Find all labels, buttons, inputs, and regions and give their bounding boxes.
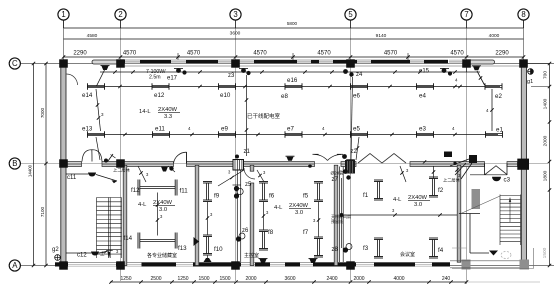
distribution box z1 bbox=[233, 160, 244, 171]
svg-text:1500: 1500 bbox=[198, 276, 209, 282]
svg-text:1400: 1400 bbox=[543, 98, 549, 109]
lamp f7 bbox=[314, 237, 323, 257]
wall interior entrance stub bbox=[459, 214, 480, 254]
svg-text:2290: 2290 bbox=[495, 51, 509, 57]
riser shaft at z1 bbox=[237, 170, 240, 262]
folding door meeting room bbox=[358, 154, 406, 164]
lamp e10 bbox=[219, 83, 236, 90]
wall right exterior bbox=[521, 64, 526, 263]
column A2 bbox=[116, 261, 125, 269]
lamp corridor wall bbox=[286, 156, 295, 161]
grid stem 1 bbox=[63, 20, 65, 28]
svg-text:2000: 2000 bbox=[543, 135, 549, 146]
grid bubble 8 bbox=[518, 9, 529, 20]
label e4 bbox=[419, 93, 426, 100]
label f10 bbox=[214, 246, 223, 253]
svg-text:4570: 4570 bbox=[384, 51, 398, 57]
label e2 bbox=[495, 93, 502, 100]
svg-text:c11: c11 bbox=[67, 175, 77, 181]
svg-text:4000: 4000 bbox=[489, 33, 500, 39]
lamp e5 bbox=[351, 131, 368, 138]
svg-text:2.5m: 2.5m bbox=[149, 75, 161, 81]
lamp z5 pair bbox=[233, 185, 244, 199]
staircase entrance hall bbox=[461, 195, 521, 246]
svg-text:f8: f8 bbox=[268, 229, 274, 236]
svg-text:z2: z2 bbox=[351, 149, 358, 155]
svg-text:1800: 1800 bbox=[543, 170, 549, 181]
dimension line top overall bbox=[64, 21, 524, 28]
column A8 porch bbox=[520, 260, 530, 270]
dimension line left bays bbox=[40, 62, 48, 267]
svg-text:3.0: 3.0 bbox=[295, 210, 303, 216]
svg-text:2: 2 bbox=[118, 10, 122, 19]
junction dot door f9 upper bbox=[308, 164, 312, 168]
column A5 bbox=[346, 261, 355, 269]
svg-text:e2: e2 bbox=[495, 93, 502, 100]
label z3 bbox=[228, 73, 235, 79]
label f5 bbox=[303, 193, 309, 200]
grid line 2 vertical bbox=[120, 20, 122, 281]
svg-text:上二层休: 上二层休 bbox=[443, 177, 461, 184]
wire entrance cluster bbox=[423, 159, 472, 179]
label fan note bbox=[331, 213, 351, 224]
svg-text:z6: z6 bbox=[242, 228, 249, 234]
wire f5-f7 bbox=[313, 202, 320, 237]
svg-text:4-L: 4-L bbox=[138, 202, 147, 208]
label g1 bbox=[527, 79, 533, 85]
svg-text:3: 3 bbox=[233, 10, 237, 19]
svg-text:700: 700 bbox=[543, 71, 549, 79]
svg-text:2290: 2290 bbox=[73, 51, 87, 57]
grid line C horizontal bbox=[21, 63, 555, 65]
svg-text:已干线配电室: 已干线配电室 bbox=[247, 112, 281, 120]
symbol g2 bbox=[52, 247, 60, 260]
grid line 1 vertical bbox=[63, 20, 65, 63]
svg-text:e7: e7 bbox=[287, 126, 294, 133]
lamp e12 bbox=[152, 83, 169, 90]
grid bubble 2 bbox=[115, 9, 126, 20]
grid line 3 vertical bbox=[235, 20, 237, 281]
grid bubble 7 bbox=[461, 9, 472, 20]
wall interior B right stub bbox=[507, 162, 518, 167]
svg-text:e15: e15 bbox=[419, 69, 430, 75]
svg-text:f10: f10 bbox=[214, 246, 223, 253]
grid line 8 vertical bbox=[523, 20, 525, 63]
wire f6-f8 bbox=[262, 202, 269, 230]
svg-text:f3: f3 bbox=[363, 245, 369, 252]
grid line B horizontal bbox=[21, 163, 549, 165]
svg-text:5800: 5800 bbox=[287, 21, 298, 26]
label z4 bbox=[356, 72, 363, 78]
grid bubble A bbox=[9, 260, 20, 271]
svg-text:4570: 4570 bbox=[317, 51, 331, 57]
svg-text:3.0: 3.0 bbox=[414, 202, 422, 208]
svg-text:e14: e14 bbox=[82, 92, 93, 99]
svg-text:e16: e16 bbox=[287, 77, 298, 84]
label circuit 4-L room3 bbox=[393, 195, 430, 208]
wire c11 bbox=[66, 174, 117, 183]
label e10 bbox=[220, 92, 231, 99]
staircase left bbox=[97, 198, 122, 259]
lamp f2 bbox=[429, 177, 438, 197]
label upper landing bbox=[113, 167, 131, 174]
lamp z8 bbox=[343, 244, 352, 253]
svg-text:上二层休: 上二层休 bbox=[113, 167, 131, 174]
label e8 bbox=[281, 93, 288, 100]
wall interior f5-f1 divider bbox=[334, 165, 338, 265]
lamp wall bottom 1 bbox=[259, 259, 268, 264]
label f14 bbox=[124, 235, 133, 242]
svg-text:各专业储藏室: 各专业储藏室 bbox=[147, 252, 177, 259]
svg-text:f11: f11 bbox=[180, 188, 189, 195]
lamp cluster f11 door bbox=[161, 166, 175, 172]
svg-text:3600: 3600 bbox=[284, 276, 295, 282]
lamp e9 bbox=[219, 131, 236, 138]
svg-text:7000: 7000 bbox=[40, 107, 45, 118]
label e16 bbox=[287, 77, 298, 84]
svg-text:e8: e8 bbox=[281, 93, 288, 100]
lamp f-room1 ceiling bbox=[104, 154, 116, 163]
lamp z3 pair bbox=[239, 68, 251, 75]
label main control room bbox=[244, 252, 259, 259]
wire lamp row 1 bbox=[87, 85, 500, 88]
svg-text:e17: e17 bbox=[167, 76, 178, 82]
lamp f1 bbox=[374, 180, 383, 200]
column B5 bbox=[346, 159, 355, 167]
svg-text:e10: e10 bbox=[220, 92, 231, 99]
lamp e1 bbox=[486, 131, 503, 138]
svg-text:f14: f14 bbox=[124, 235, 133, 242]
svg-text:c3: c3 bbox=[504, 177, 511, 184]
entrance double door bbox=[470, 164, 507, 176]
grid stem 8 bbox=[523, 20, 525, 28]
svg-text:1250: 1250 bbox=[120, 276, 131, 282]
svg-text:c12: c12 bbox=[77, 253, 87, 259]
wire f-room1 vertical bbox=[156, 193, 163, 236]
label z6 bbox=[242, 228, 249, 234]
svg-text:z5: z5 bbox=[245, 182, 252, 188]
svg-text:4000: 4000 bbox=[393, 276, 404, 282]
label B20 bbox=[331, 170, 345, 177]
svg-text:e13: e13 bbox=[82, 126, 93, 133]
svg-text:4580: 4580 bbox=[87, 33, 98, 39]
svg-text:4570: 4570 bbox=[450, 51, 464, 57]
wall interior f9-f6 divider bbox=[250, 165, 254, 265]
label e14 bbox=[82, 92, 93, 99]
lamp e11 bbox=[153, 131, 170, 138]
distribution panel entrance bbox=[469, 155, 477, 163]
column C7 bbox=[462, 59, 471, 67]
wire meeting room horiz bbox=[340, 208, 458, 217]
door arc room f9 inner bbox=[244, 168, 255, 179]
lamp canopy right bbox=[472, 66, 481, 71]
label c11 bbox=[67, 175, 77, 181]
lamp e17 pair bbox=[174, 68, 187, 75]
lamp f4 bbox=[429, 238, 438, 258]
riser shaft at z7 bbox=[340, 167, 344, 263]
column A1 bbox=[59, 261, 68, 269]
dimension line bottom bbox=[109, 276, 540, 284]
label f6 bbox=[269, 193, 275, 200]
label f12 bbox=[131, 187, 140, 194]
svg-text:7100: 7100 bbox=[40, 206, 45, 217]
dimension line left overall bbox=[28, 62, 36, 267]
wall interior f11-f9 divider bbox=[195, 165, 199, 265]
label e11 bbox=[155, 126, 165, 133]
wire canopy lamp drop bbox=[97, 70, 105, 86]
svg-text:3600: 3600 bbox=[230, 31, 241, 37]
svg-text:3.3: 3.3 bbox=[164, 114, 172, 120]
label z2 bbox=[342, 149, 357, 159]
label c3 bbox=[504, 177, 511, 184]
wire porch run bbox=[470, 251, 498, 256]
wire f1 switch bbox=[400, 166, 409, 182]
column C1 bbox=[59, 59, 68, 67]
door double stair room bbox=[82, 150, 102, 162]
svg-text:4-L: 4-L bbox=[393, 197, 402, 203]
label meeting room bbox=[400, 251, 415, 258]
lamp z6 bbox=[236, 233, 245, 242]
wire lamp row 2 bbox=[87, 126, 498, 136]
column C8 bbox=[519, 59, 528, 67]
svg-text:主控室: 主控室 bbox=[244, 252, 259, 259]
svg-text:8: 8 bbox=[521, 10, 525, 19]
svg-text:2000: 2000 bbox=[245, 276, 256, 282]
porch slab lines bbox=[450, 261, 520, 268]
svg-text:14400: 14400 bbox=[28, 164, 33, 177]
symbol g1 bbox=[528, 69, 534, 75]
svg-text:f9: f9 bbox=[214, 193, 220, 200]
label e17 bbox=[167, 76, 178, 82]
grid line 7 vertical bbox=[466, 20, 468, 284]
lamp e3 bbox=[417, 131, 434, 138]
svg-text:e9: e9 bbox=[221, 126, 228, 133]
svg-text:Ø20管: Ø20管 bbox=[331, 170, 345, 177]
exhaust marker on divider wall bbox=[194, 237, 200, 246]
label z1 bbox=[235, 149, 251, 159]
column A7 porch bbox=[462, 260, 471, 270]
lamp c12 bbox=[91, 252, 99, 256]
wire e15 drop bbox=[453, 71, 484, 88]
label f2 bbox=[438, 187, 444, 194]
lamp c3 bbox=[492, 177, 501, 182]
svg-text:2500: 2500 bbox=[150, 276, 161, 282]
column C3 bbox=[231, 59, 240, 67]
wire row2 to wall drops bbox=[96, 137, 359, 160]
grid bubble 5 bbox=[345, 9, 356, 20]
label f13 bbox=[178, 245, 187, 252]
porch outline bottom-right bbox=[452, 248, 534, 269]
lamp f10 bbox=[203, 235, 212, 255]
canopy top-right bbox=[468, 60, 495, 64]
wire f6 switch bbox=[257, 170, 266, 181]
svg-text:7: 7 bbox=[464, 10, 468, 19]
label f11 bbox=[180, 188, 189, 195]
label e15 bbox=[419, 69, 430, 75]
label f8 bbox=[268, 229, 274, 236]
svg-text:e4: e4 bbox=[419, 93, 426, 100]
lamp f9 bbox=[203, 182, 212, 202]
wire row1 drop left bbox=[96, 89, 104, 131]
grid line 5 vertical bbox=[350, 20, 352, 281]
lamp canopy left bbox=[101, 66, 110, 71]
distribution box z2 bbox=[345, 160, 355, 174]
wire z7-z8 vertical bbox=[341, 178, 343, 248]
label 7-100W bbox=[146, 69, 166, 81]
svg-text:B: B bbox=[12, 159, 17, 168]
svg-text:4-L: 4-L bbox=[274, 205, 283, 211]
wall interior meeting room right bbox=[457, 165, 461, 262]
svg-text:1500: 1500 bbox=[219, 276, 230, 282]
lamp f8 bbox=[259, 230, 268, 250]
lamp e7 bbox=[285, 131, 302, 138]
wall interior corridor B bbox=[66, 162, 485, 167]
lamp e6 bbox=[351, 83, 368, 90]
lamp e14 bbox=[88, 83, 105, 90]
svg-text:f13: f13 bbox=[178, 245, 187, 252]
dimension line top second bbox=[64, 31, 524, 40]
label e3 bbox=[419, 126, 426, 133]
svg-text:4570: 4570 bbox=[123, 51, 137, 57]
svg-text:f7: f7 bbox=[303, 229, 309, 236]
wire c12 bbox=[66, 249, 119, 254]
svg-text:240: 240 bbox=[442, 276, 451, 282]
svg-text:1: 1 bbox=[61, 10, 65, 19]
lamp e16 bbox=[285, 83, 302, 90]
label e9 bbox=[221, 126, 228, 133]
svg-text:f1: f1 bbox=[363, 192, 369, 199]
svg-text:z1: z1 bbox=[244, 149, 251, 155]
wire f10 bottom bbox=[204, 256, 212, 263]
svg-text:z8: z8 bbox=[332, 247, 339, 253]
label e1 bbox=[496, 127, 503, 134]
svg-text:会议室: 会议室 bbox=[400, 251, 415, 258]
grid line A horizontal bbox=[21, 265, 555, 267]
lamp z7 bbox=[343, 169, 351, 180]
wall top thin inner line bbox=[121, 65, 524, 67]
label f4 bbox=[438, 247, 444, 254]
door arc room f11 bbox=[174, 152, 187, 164]
svg-text:2000: 2000 bbox=[353, 276, 364, 282]
column B1 bbox=[59, 159, 68, 167]
svg-text:e3: e3 bbox=[419, 126, 426, 133]
lamp f13-f14 bbox=[138, 233, 177, 249]
label f1 bbox=[363, 192, 369, 199]
lamp f3 bbox=[374, 238, 383, 258]
column A3 bbox=[231, 261, 240, 269]
svg-text:z7: z7 bbox=[332, 177, 339, 183]
shaft gray block entrance bbox=[472, 189, 481, 209]
lamp e4 bbox=[417, 83, 434, 90]
wire top right corner bbox=[466, 66, 468, 72]
grid stem 3 bbox=[235, 20, 237, 28]
door arc big room left bbox=[67, 74, 78, 85]
lamp f5 bbox=[314, 182, 323, 202]
label e6 bbox=[353, 93, 360, 100]
wire ceiling run top bbox=[100, 70, 480, 73]
column B2 bbox=[116, 159, 125, 167]
lamp wall bottom 2 bbox=[309, 259, 318, 264]
lamp e13 bbox=[88, 131, 105, 138]
label f7 bbox=[303, 229, 309, 236]
dimension line top bays bbox=[62, 51, 525, 61]
svg-text:1250: 1250 bbox=[177, 276, 188, 282]
svg-text:2400: 2400 bbox=[326, 276, 337, 282]
wire z4 drop to z2 bbox=[351, 77, 353, 160]
svg-text:4570: 4570 bbox=[187, 51, 201, 57]
svg-text:e5: e5 bbox=[353, 126, 360, 133]
svg-text:z4: z4 bbox=[356, 72, 363, 78]
canopy top-left bbox=[92, 60, 121, 64]
grid bubble C bbox=[9, 58, 20, 69]
label z7 bbox=[332, 177, 339, 183]
svg-text:预留线: 预留线 bbox=[331, 218, 343, 224]
distribution box entrance bbox=[444, 152, 452, 158]
label e12 bbox=[154, 92, 165, 99]
label f3 bbox=[363, 245, 369, 252]
dimension line right bbox=[527, 62, 551, 267]
grid bubble B bbox=[9, 158, 20, 169]
svg-text:f2: f2 bbox=[438, 187, 444, 194]
door double room f9 bbox=[313, 154, 344, 160]
wire f2 top bbox=[432, 166, 435, 178]
grid stem 7 bbox=[466, 20, 468, 28]
label circuit 14-L bbox=[139, 107, 180, 120]
svg-text:4570: 4570 bbox=[253, 51, 267, 57]
svg-text:14-L: 14-L bbox=[139, 109, 151, 115]
wall bottom exterior with windows bbox=[55, 262, 450, 266]
label upper landing 2 bbox=[443, 177, 461, 184]
label z5 bbox=[245, 182, 252, 188]
label e7 bbox=[287, 126, 294, 133]
svg-text:f12: f12 bbox=[131, 187, 140, 194]
label circuit 4-L room2 bbox=[274, 203, 311, 216]
label room1 name bbox=[147, 252, 177, 259]
lamp e2 bbox=[485, 83, 502, 90]
grid stem 2 bbox=[120, 20, 122, 28]
column C2 bbox=[116, 59, 125, 67]
column C5 bbox=[346, 59, 355, 67]
svg-text:z3: z3 bbox=[228, 73, 235, 79]
svg-text:f4: f4 bbox=[438, 247, 444, 254]
svg-text:1500: 1500 bbox=[542, 247, 548, 258]
lamp c11 bbox=[88, 173, 96, 177]
lamp f6 bbox=[259, 182, 268, 202]
wire z3 drop to z1 bbox=[245, 75, 248, 156]
wire f9 switch bbox=[218, 170, 244, 187]
svg-text:A: A bbox=[12, 261, 18, 270]
wall left exterior bbox=[61, 64, 66, 266]
column B8 bbox=[517, 159, 529, 170]
wire f9-f10 bbox=[206, 202, 213, 235]
svg-text:f5: f5 bbox=[303, 193, 309, 200]
svg-text:e6: e6 bbox=[353, 93, 360, 100]
wall top exterior with windows bbox=[121, 60, 463, 63]
label z8 bbox=[332, 247, 339, 253]
svg-text:f6: f6 bbox=[269, 193, 275, 200]
svg-text:e1: e1 bbox=[496, 127, 503, 134]
lamp z4 bbox=[343, 69, 354, 77]
label circuit 4-L room1 bbox=[138, 200, 175, 213]
grid stem 5 bbox=[350, 20, 352, 28]
wall interior stair room right bbox=[123, 165, 127, 265]
svg-text:C: C bbox=[12, 59, 18, 68]
lamp e15 pair bbox=[440, 68, 452, 76]
svg-text:5: 5 bbox=[348, 10, 353, 19]
wire f-room1 switch bbox=[138, 166, 149, 182]
svg-text:g2: g2 bbox=[52, 247, 59, 253]
svg-text:9140: 9140 bbox=[376, 33, 387, 39]
